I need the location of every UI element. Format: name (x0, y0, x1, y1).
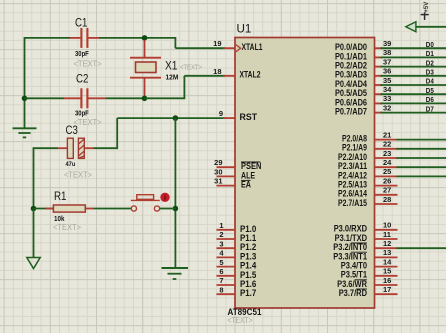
svg-text:P2.7/A15: P2.7/A15 (338, 198, 367, 208)
svg-text:36: 36 (383, 67, 391, 76)
svg-text:23: 23 (383, 149, 391, 158)
svg-text:D5: D5 (426, 86, 434, 95)
node junction R1 net / rail (31, 206, 37, 212)
svg-text:D1: D1 (426, 49, 434, 58)
svg-text:30pF: 30pF (75, 49, 89, 58)
pin 17 stub (P3.7) (375, 293, 398, 295)
resistor R1 (34, 205, 94, 212)
pin 23 stub (P2.2) (375, 157, 398, 159)
pin 14 stub (P3.4) (375, 266, 398, 268)
wire P0.3 to D3 (381, 75, 446, 77)
node junction crystal top / C1 net (142, 35, 148, 41)
svg-text:U1: U1 (237, 22, 252, 36)
svg-text:XTAL1: XTAL1 (242, 42, 263, 52)
svg-text:D3: D3 (426, 68, 434, 77)
pin 37 stub (P0.2) (375, 66, 383, 68)
pin 29 stub (PSEN) (217, 166, 236, 168)
pin 34 stub (P0.5) (375, 93, 383, 95)
svg-text:P1.7: P1.7 (240, 288, 256, 298)
wire P0.7 to D7 (381, 112, 446, 114)
svg-text:16: 16 (383, 276, 391, 285)
svg-text:27: 27 (383, 186, 391, 195)
pin 25 stub (P2.4) (375, 175, 398, 177)
pin 12 stub (P3.2) (375, 247, 398, 249)
wire P2.1 net (397, 148, 446, 150)
svg-text:34: 34 (383, 85, 392, 94)
svg-text:12M: 12M (166, 73, 179, 82)
wire XTAL1 net into pin 19 (175, 47, 225, 49)
capacitor C3 (polarized) (58, 138, 94, 158)
svg-text:XTAL2: XTAL2 (240, 70, 261, 80)
pin 11 stub (P3.1) (375, 238, 398, 240)
svg-text:7: 7 (219, 276, 223, 285)
pin 2 stub (P1.1) (217, 238, 236, 240)
svg-text:11: 11 (383, 230, 391, 239)
svg-text:<TEXT>: <TEXT> (64, 171, 92, 180)
svg-text:<TEXT>: <TEXT> (228, 316, 253, 325)
pin 4 stub (P1.3) (217, 256, 236, 258)
input terminal arrow (left-pointing) (406, 22, 416, 32)
crystal X1 (130, 40, 161, 96)
svg-text:14: 14 (383, 257, 392, 266)
pin 13 stub (P3.3) (375, 256, 398, 258)
svg-text:<TEXT>: <TEXT> (74, 60, 102, 69)
pushbutton (131, 195, 160, 211)
svg-text:1: 1 (219, 221, 223, 230)
wire C3 rail down to R1 row (33, 148, 35, 208)
pin 30 stub (ALE) (217, 175, 236, 177)
svg-text:39: 39 (383, 39, 391, 48)
svg-text:D7: D7 (426, 104, 434, 113)
svg-text:X1: X1 (165, 59, 178, 73)
pin 1 stub (P1.0) (217, 229, 236, 231)
svg-text:8: 8 (219, 285, 223, 294)
svg-text:D6: D6 (426, 95, 434, 104)
svg-text:3: 3 (219, 239, 223, 248)
pin 28 stub (P2.7) (375, 203, 398, 205)
wire P0.2 to D2 (381, 66, 446, 68)
capacitor C2 (64, 88, 106, 108)
wire R1 to button (94, 208, 132, 210)
svg-text:<TEXT>: <TEXT> (53, 223, 81, 232)
chip body U1 AT89C51 (235, 38, 375, 309)
svg-text:26: 26 (383, 176, 391, 185)
wire vertical rail RST to ground (174, 118, 176, 268)
wire left ground rail vertical (24, 37, 26, 128)
wire C3 right to RST corner (94, 147, 118, 149)
svg-text:47u: 47u (66, 161, 76, 168)
svg-text:30pF: 30pF (75, 109, 89, 118)
svg-text:21: 21 (383, 130, 391, 139)
pin 35 stub (P0.4) (375, 84, 383, 86)
svg-text:33: 33 (383, 94, 391, 103)
wire rail down to terminal arrow (33, 209, 35, 258)
wire P2.3 net (397, 166, 446, 168)
svg-text:29: 29 (214, 158, 222, 167)
svg-text:P3.7/RD: P3.7/RD (339, 288, 367, 298)
ground symbol (left rail) (13, 128, 37, 137)
pin 27 stub (P2.6) (375, 194, 398, 196)
svg-text:P0.7/AD7: P0.7/AD7 (335, 107, 367, 117)
clock chevron XTAL1 (236, 45, 241, 52)
pin 8 stub (P1.7) (217, 293, 236, 295)
node junction RST net / vertical rail (173, 115, 179, 121)
node junction crystal bottom / C2 net (142, 96, 148, 102)
svg-text:38: 38 (383, 48, 391, 57)
pin 33 stub (P0.6) (375, 102, 383, 104)
pin 31 stub (EA) (217, 185, 236, 187)
svg-text:24: 24 (383, 158, 392, 167)
wire XTAL1 net horizontal from left rail through C1 to corner (25, 37, 71, 39)
svg-text:37: 37 (383, 57, 391, 66)
pin 24 stub (P2.3) (375, 166, 398, 168)
pin 10 stub (P3.0) (375, 229, 398, 231)
svg-text:17: 17 (383, 285, 391, 294)
pin 32 stub (P0.7) (375, 112, 383, 114)
wire P0.6 to D6 (381, 102, 446, 104)
svg-text:C2: C2 (76, 72, 89, 86)
wire XTAL2 net into pin 18 (184, 75, 225, 77)
pin 38 stub (P0.1) (375, 56, 383, 58)
wire P2.2 net (397, 157, 446, 159)
svg-text:C1: C1 (75, 16, 88, 30)
svg-text:15: 15 (383, 267, 391, 276)
svg-text:5: 5 (219, 258, 223, 267)
svg-text:19: 19 (213, 39, 221, 48)
wire P0.0 to D0 (381, 47, 446, 49)
svg-text:31: 31 (214, 177, 222, 186)
svg-text:D4: D4 (426, 77, 435, 86)
svg-text:30: 30 (214, 167, 222, 176)
svg-text:C3: C3 (66, 123, 79, 137)
wire button to rail junction (160, 208, 176, 210)
pin 39 stub (P0.0) (375, 47, 383, 49)
svg-text:2: 2 (219, 230, 223, 239)
pin 7 stub (P1.6) (217, 284, 236, 286)
pin 26 stub (P2.5) (375, 185, 398, 187)
wire RST corner up (116, 118, 118, 149)
wire C3 net left to rail (33, 147, 58, 149)
svg-text:9: 9 (219, 109, 223, 118)
pin 21 stub (P2.0) (375, 139, 398, 141)
pin 36 stub (P0.3) (375, 75, 383, 77)
capacitor C1 (70, 28, 99, 48)
pin 18 stub (XTAL2) (223, 75, 235, 77)
svg-text:D2: D2 (426, 58, 434, 67)
pushbutton actuator red dot (160, 193, 169, 202)
svg-text:6: 6 (219, 267, 223, 276)
wire XTAL2 corner up (183, 76, 185, 99)
svg-text:13: 13 (383, 248, 391, 257)
svg-text:12: 12 (383, 239, 391, 248)
svg-text:R1: R1 (54, 189, 67, 203)
power terminal +5V (421, 2, 430, 20)
wire P0.1 to D1 (381, 56, 446, 58)
wire C2 net to XTAL2 corner (145, 97, 185, 99)
pin 22 stub (P2.1) (375, 148, 398, 150)
svg-text:32: 32 (383, 103, 391, 112)
pin 9 stub (RST) (223, 117, 235, 119)
wire P0.5 to D5 (381, 93, 446, 95)
svg-text:D0: D0 (426, 40, 434, 49)
wire XTAL1 net corner down (174, 37, 176, 48)
svg-text:10k: 10k (54, 216, 65, 223)
wire P3.2/INT0 net (397, 247, 446, 249)
pin 6 stub (P1.5) (217, 275, 236, 277)
node junction left rail / C2 net (22, 96, 28, 102)
node junction button / vertical rail (173, 206, 179, 212)
svg-text:28: 28 (383, 195, 391, 204)
svg-text:18: 18 (213, 67, 221, 76)
svg-text:25: 25 (383, 167, 391, 176)
ground symbol (below button) (162, 268, 189, 279)
pin 15 stub (P3.5) (375, 275, 398, 277)
svg-text:35: 35 (383, 76, 391, 85)
svg-text:EA: EA (241, 180, 252, 190)
svg-text:<TEXT>: <TEXT> (180, 63, 202, 72)
wire P2.0 net (397, 139, 446, 141)
wire RST net horizontal into pin 9 (117, 117, 225, 119)
svg-text:RST: RST (240, 112, 258, 122)
pin 3 stub (P1.2) (217, 247, 236, 249)
ground terminal arrow (down) (27, 258, 40, 269)
svg-text:10: 10 (383, 221, 391, 230)
wire P0.4 to D4 (381, 84, 446, 86)
svg-text:+5V: +5V (424, 2, 430, 13)
wire XTAL2/C2 net horizontal (25, 97, 65, 99)
svg-text:22: 22 (383, 140, 391, 149)
wire from terminal arrow to right edge (416, 26, 446, 28)
wire P2.4 net (397, 175, 446, 177)
pin 5 stub (P1.4) (217, 266, 236, 268)
pin 16 stub (P3.6) (375, 284, 398, 286)
pin 19 stub (XTAL1) (223, 47, 235, 49)
